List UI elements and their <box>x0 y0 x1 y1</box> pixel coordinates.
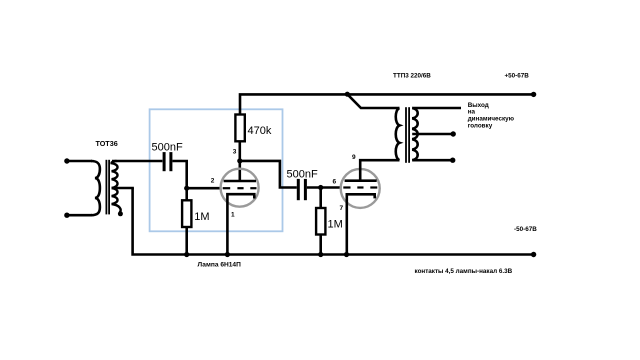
wire T2 secondary top tap (output) <box>412 107 461 110</box>
svg-text:1: 1 <box>231 211 235 218</box>
triode V1a grid (dashed) <box>223 187 257 189</box>
node rail junction R1 <box>184 252 189 257</box>
svg-text:ТТП3 220/6В: ТТП3 220/6В <box>393 73 431 80</box>
node input terminal bottom <box>64 213 69 218</box>
wire T1 secondary tap lead <box>112 187 134 190</box>
svg-text:-50-67В: -50-67В <box>514 226 537 233</box>
node grid junction V1 <box>184 186 189 191</box>
node rail junction R3 <box>318 252 323 257</box>
wire T2 secondary middle tap <box>412 133 453 136</box>
svg-text:6: 6 <box>333 179 337 186</box>
wire V1b anode to T2 primary <box>360 160 399 181</box>
transformer T2 ТТП3 primary winding <box>396 108 400 160</box>
node bottom tap terminal <box>450 158 455 163</box>
svg-text:1M: 1M <box>194 211 209 223</box>
svg-text:2: 2 <box>211 178 215 185</box>
triode V1b cathode <box>347 194 375 254</box>
wire T1 secondary top to C1 <box>112 160 162 163</box>
svg-text:3: 3 <box>233 149 237 156</box>
node input terminal top <box>64 158 69 163</box>
svg-text:ТОТ36: ТОТ36 <box>96 139 118 148</box>
wire bottom rail <box>133 188 534 255</box>
transformer T1 secondary winding lower section <box>112 188 121 213</box>
wire C1 to grid node <box>173 161 187 188</box>
svg-text:+50-67В: +50-67В <box>505 73 530 80</box>
label Выход на динамическую головку <box>468 102 515 129</box>
node rail junction V1a cathode <box>225 252 230 257</box>
node T1 secondary end terminal <box>118 211 123 216</box>
wire C2 to V2 grid <box>307 186 341 189</box>
triode V1a cathode <box>227 194 254 254</box>
capacitor C2 500nF plates <box>298 179 305 200</box>
wire T2 secondary bottom tap <box>412 159 453 162</box>
svg-text:Лампа 6Н14П: Лампа 6Н14П <box>198 261 242 268</box>
svg-text:головку: головку <box>468 122 493 129</box>
triode V1a envelope <box>221 169 259 207</box>
wire R2 to V1 anode <box>239 141 242 181</box>
wire input top lead <box>67 160 92 163</box>
node rail junction <box>345 92 350 97</box>
capacitor C1 500nF plates <box>164 152 171 171</box>
svg-text:9: 9 <box>352 154 356 161</box>
svg-text:контакты 4,5 лампы-накал 6.3В: контакты 4,5 лампы-накал 6.3В <box>415 268 513 275</box>
node grid junction V2 <box>318 185 323 190</box>
node middle tap terminal <box>451 131 456 136</box>
triode V1a anode plate <box>224 180 256 183</box>
wire anode node to C2 <box>240 161 297 188</box>
svg-text:1M: 1M <box>328 219 343 231</box>
triode V1b envelope <box>341 169 380 208</box>
wire grid node to V1 grid <box>187 187 221 190</box>
transformer T1 core <box>106 160 109 215</box>
resistor R2 470k <box>235 115 244 142</box>
svg-text:470k: 470k <box>248 125 272 137</box>
wire top rail +50-67V <box>240 94 534 114</box>
wire T2 primary top to rail (diagonal) <box>347 94 399 108</box>
selection box (blue highlight around first triode stage) <box>150 109 283 231</box>
node top rail end terminal <box>531 92 536 97</box>
svg-text:500nF: 500nF <box>287 169 318 181</box>
node V1 anode junction <box>237 158 242 163</box>
transformer T2 core <box>406 107 409 163</box>
transformer T1 ТОТ36 primary winding <box>91 161 100 215</box>
svg-text:7: 7 <box>340 205 344 212</box>
wire input bottom lead <box>67 214 92 217</box>
svg-text:500nF: 500nF <box>152 142 183 154</box>
resistor R1 1M <box>185 188 188 200</box>
node rail junction V1b cathode <box>344 252 349 257</box>
node bottom rail end terminal <box>531 252 536 257</box>
triode V1b grid (dashed) <box>343 186 377 188</box>
resistor R3 1M <box>319 188 322 209</box>
transformer T1 secondary winding upper section <box>112 161 118 188</box>
triode V1b anode plate <box>345 179 377 182</box>
transformer T2 secondary winding <box>412 108 417 160</box>
